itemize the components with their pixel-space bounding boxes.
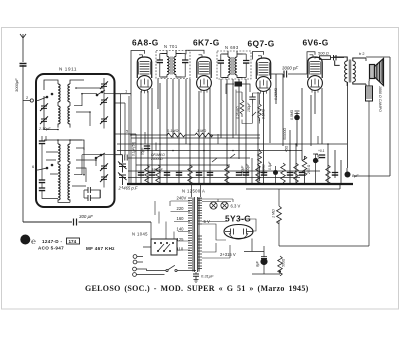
capacitor row c6 [207, 173, 213, 176]
resistor row r1 [145, 165, 150, 185]
sw coil L9 [58, 182, 60, 200]
capacitor C6 [39, 141, 45, 144]
resistor 0.1Mohm [167, 133, 185, 137]
svg-text:1 MΩ: 1 MΩ [197, 129, 206, 133]
wire tube 6Q7 drops [258, 89, 270, 184]
switch lever mid b [230, 154, 235, 158]
svg-text:1247-D -: 1247-D - [42, 239, 62, 244]
resistor 1Mohm bottom right [246, 185, 340, 190]
resistor row r8 [326, 165, 331, 185]
svg-text:3000 pF: 3000 pF [282, 66, 298, 71]
capacitor 150pF det [252, 93, 254, 104]
svg-text:174: 174 [69, 239, 77, 244]
capacitor 0.5uF coupling [144, 146, 150, 149]
svg-text:0.1MΩ: 0.1MΩ [167, 129, 178, 133]
junction dots rails [130, 134, 329, 151]
svg-text:140: 140 [177, 227, 185, 232]
capacitor row c8 [243, 173, 249, 176]
svg-text:0.5μF: 0.5μF [268, 161, 272, 170]
svg-text:8μF: 8μF [256, 260, 260, 267]
IF transformer N701 [156, 51, 190, 79]
svg-text:6.3 V: 6.3 V [231, 204, 241, 209]
capacitor C8 [39, 188, 45, 191]
svg-text:2-10pF: 2-10pF [38, 127, 51, 131]
svg-text:3000pF: 3000pF [246, 163, 250, 175]
resistor row r3 [188, 165, 193, 185]
resistor 500ohm filter [278, 256, 283, 276]
tube 5Y3-G [224, 225, 253, 240]
wire grid cap leads [131, 50, 315, 96]
antenna [20, 34, 26, 44]
junction dots bus [140, 183, 342, 185]
svg-text:2+315 V: 2+315 V [220, 252, 236, 257]
svg-text:6K7-G: 6K7-G [193, 38, 220, 48]
sw coil L6 [68, 144, 70, 162]
sw coil L5 [58, 144, 60, 162]
capacitor row c1 [138, 173, 144, 176]
wire det sub [236, 90, 260, 135]
wire coil top links [44, 80, 84, 128]
svg-text:6Q7-G: 6Q7-G [248, 39, 275, 49]
svg-text:0.25MΩ: 0.25MΩ [274, 88, 278, 100]
resistor row r2 [156, 165, 161, 185]
svg-text:05μF: 05μF [141, 147, 145, 155]
wire tube 6K7 drops [199, 88, 210, 184]
wire HT secondary [202, 243, 230, 258]
svg-text:1 MΩ: 1 MΩ [272, 209, 276, 218]
capacitor 3000pF coupling [271, 73, 307, 75]
svg-text:300 µF: 300 µF [79, 214, 93, 219]
svg-text:50000Ω: 50000Ω [283, 128, 287, 140]
trimmer C5 [100, 116, 108, 124]
wire right column top [74, 78, 115, 129]
terminal mains 2 [133, 273, 137, 277]
svg-text:N 12500 A: N 12500 A [182, 189, 205, 194]
tube 6K7-G [197, 55, 212, 94]
tube 6A8-G [137, 55, 152, 94]
band switch S1d [95, 153, 105, 159]
band switch S1b [96, 90, 105, 96]
sw coil L7 [58, 164, 60, 182]
svg-text:tr 2: tr 2 [359, 52, 365, 56]
svg-text:G: G [22, 235, 28, 244]
tube 6Q7-G [256, 56, 271, 95]
svg-text:220: 220 [177, 206, 185, 211]
osc coil L4 [68, 106, 70, 124]
resistor row r7 [294, 163, 299, 183]
capacitor row c7 [236, 173, 242, 176]
wire IF2 drops [221, 79, 246, 184]
trimmer padder C1 [40, 103, 48, 111]
resistor 500ohm screen [315, 58, 319, 59]
svg-text:0.1μF(50): 0.1μF(50) [132, 142, 136, 156]
wire selector to line [143, 222, 151, 247]
svg-text:GELOSO (SOC.) - MOD. SUPER « G: GELOSO (SOC.) - MOD. SUPER « G 51 » (Mar… [85, 284, 309, 293]
capacitor row c10 [287, 173, 293, 176]
wire antenna lead [22, 44, 24, 62]
resistor row r6 [281, 163, 286, 183]
coil box N1911 outline [36, 74, 115, 207]
wire filter caps [244, 239, 280, 275]
electrolytic 6V6 cathode area [294, 115, 300, 121]
svg-text:150μF: 150μF [247, 102, 251, 112]
switch lever mid a [212, 158, 217, 162]
svg-text:0.31μF: 0.31μF [201, 274, 214, 279]
wire left column [44, 96, 58, 130]
wire bottom inner [84, 190, 100, 198]
wire mains to switch [137, 257, 166, 275]
wire lower left column [42, 136, 58, 199]
electrolytic small a [273, 170, 278, 175]
capacitor row c12 [332, 173, 338, 176]
svg-text:6A8-G: 6A8-G [132, 38, 159, 48]
capacitor 0.01uF line [195, 272, 197, 274]
trimmer C4 [100, 97, 108, 105]
resistor 0.25Mohm det [240, 92, 244, 117]
trimmer C3 [100, 81, 108, 89]
wire screen rail [117, 150, 302, 152]
capacitor 3000pF antenna [20, 64, 27, 67]
sw coil L10 [68, 182, 70, 200]
wire AVC bus [115, 94, 137, 184]
antenna coil L1 [58, 84, 60, 102]
svg-text:0.5MΩ: 0.5MΩ [290, 109, 294, 120]
wire lower coils links [44, 140, 84, 202]
svg-text:ACO 5-947: ACO 5-947 [38, 246, 64, 251]
wire box interior extras [46, 88, 104, 198]
wire aux rail 2 [128, 170, 320, 172]
resistor 0.5Mohm vol [258, 100, 262, 121]
capacitor screen bypass [331, 57, 345, 59]
svg-text:6V6-G: 6V6-G [303, 38, 329, 48]
wire line 5 out of box [115, 133, 137, 135]
electrolytic 8uF bus end [345, 172, 351, 178]
band switch S1c [36, 164, 53, 170]
wire taps to selector [155, 201, 190, 250]
wire 5Y3 plate leads [202, 219, 256, 240]
resistor 1Mohm [195, 133, 213, 137]
svg-text:160: 160 [177, 216, 185, 221]
trimmer C9 [100, 163, 108, 171]
wire cathode rail [128, 157, 250, 159]
svg-text:3000pF: 3000pF [14, 78, 19, 92]
wire right tall drop from output transformer [347, 82, 349, 168]
wire 6q7 local [226, 84, 250, 94]
wire extra verticals [129, 96, 318, 184]
power transformer [188, 197, 202, 272]
svg-text:N 1911: N 1911 [59, 67, 77, 72]
svg-text:5Y3-G: 5Y3-G [225, 214, 251, 224]
pilot lamp 1 [210, 202, 217, 209]
variable capacitor 2x465pF [115, 155, 127, 187]
ground power [194, 276, 199, 282]
svg-text:N 1045: N 1045 [132, 232, 148, 237]
svg-text:MF 467 KHz: MF 467 KHz [86, 246, 115, 251]
svg-text:150μμF: 150μμF [152, 168, 164, 172]
svg-text:0.25 MΩ: 0.25 MΩ [236, 106, 240, 119]
wire primary top to lamps [198, 199, 233, 202]
osc coil L3 [58, 106, 60, 124]
svg-text:℮: ℮ [31, 237, 36, 246]
wire grid line 1 out of box [115, 93, 132, 95]
wire speaker connections [366, 58, 369, 101]
resistor row r5 [256, 165, 261, 185]
svg-text:N 701: N 701 [164, 44, 178, 49]
capacitor row c3 [164, 173, 170, 176]
resistor 250ohm [302, 156, 307, 176]
svg-text:250 Ω: 250 Ω [307, 164, 311, 175]
wire mid verticals right [276, 74, 347, 184]
capacitor C7 [39, 180, 45, 183]
capacitor C11 [88, 187, 90, 193]
svg-text:45Ω: 45Ω [285, 145, 289, 152]
electrolytic small b [313, 158, 318, 163]
wire tube 6A8 drops [141, 79, 160, 184]
wire antenna to band switch box [23, 65, 30, 222]
resistor det load [235, 82, 243, 87]
svg-text:100μF: 100μF [241, 165, 245, 175]
svg-text:500 Ω: 500 Ω [318, 51, 329, 56]
resistor row r4 [225, 165, 230, 185]
wire B+ rail [117, 143, 347, 145]
svg-text:110: 110 [177, 247, 184, 252]
wire aux rail [136, 164, 230, 166]
terminal phono 2 [133, 260, 137, 264]
trimmer C10 [100, 174, 108, 182]
svg-text:8μF: 8μF [352, 174, 359, 178]
capacitor 0.1uF right [319, 155, 325, 158]
svg-text:240V: 240V [177, 196, 187, 201]
trimmer padder C2 [40, 116, 48, 124]
capacitor row c4 [176, 173, 182, 176]
capacitor 300uF [74, 219, 77, 226]
wire far right drop [354, 57, 390, 176]
svg-text:N 693: N 693 [225, 45, 239, 50]
svg-text:40000Ω: 40000Ω [262, 164, 266, 176]
svg-text:500Ω: 500Ω [282, 258, 286, 267]
speaker [370, 59, 384, 86]
svg-text:20000Ω: 20000Ω [150, 157, 163, 161]
band switch S1a [36, 93, 53, 100]
ground bus [127, 183, 353, 185]
tube 6V6-G [308, 55, 323, 94]
antenna coil L2 [68, 84, 70, 102]
speaker field coil 1000ohm [366, 86, 373, 101]
svg-text:+0.1: +0.1 [318, 149, 325, 153]
filter electrolytic 8uF [260, 258, 267, 265]
capacitor row c5 [196, 173, 202, 176]
sw coil L8 [68, 164, 70, 182]
terminal phono 1 [133, 255, 137, 259]
wire lower right column [74, 155, 115, 188]
wire bottom right run [279, 101, 369, 246]
logo Geloso badge [20, 235, 36, 246]
node terminal 2 [30, 99, 33, 102]
IF transformer N693 [217, 51, 251, 79]
svg-text:2+465 p.F: 2+465 p.F [118, 186, 138, 191]
wire aux rail 3 [128, 177, 300, 179]
wire IF1 drops [167, 79, 190, 184]
wire 300uF AVC line [23, 221, 151, 223]
capacitor row c11 [299, 173, 305, 176]
capacitor row c9 [261, 173, 267, 176]
svg-text:1000 Ω CAMPO: 1000 Ω CAMPO [378, 86, 382, 112]
capacitor C12 [88, 195, 90, 201]
capacitor row c2 [149, 173, 155, 176]
terminal mains 1 [133, 267, 137, 271]
svg-text:0.5MΩ: 0.5MΩ [262, 109, 266, 119]
mains switch [166, 265, 196, 271]
resistor 40000ohm [258, 149, 262, 181]
pilot lamp 2 [221, 202, 228, 209]
wire horizontal AVC [131, 135, 260, 138]
capacitor mica left [125, 155, 127, 161]
